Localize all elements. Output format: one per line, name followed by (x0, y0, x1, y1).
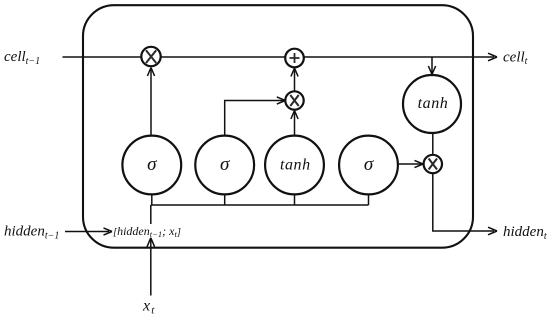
wire hidden_{t-1} input arrow (65, 231, 109, 233)
svg-text:hiddent: hiddent (503, 224, 547, 242)
wire sigma3 right into X3 (397, 163, 422, 165)
svg-text:tanh: tanh (280, 157, 311, 174)
wire candidate tanh up into X2 (294, 111, 296, 137)
node X1 multiply circle (141, 47, 160, 66)
node X3 multiply circle (424, 155, 442, 173)
wire X3 down then right to hidden_t (433, 174, 494, 232)
svg-text:tanh: tanh (418, 95, 449, 112)
wire output tanh down to X3 (432, 133, 434, 155)
wire cell state top line (63, 56, 495, 58)
wire branch down into output tanh (431, 57, 433, 74)
wire concat vector up to bus (150, 205, 152, 224)
wire stub to sigma2 (224, 194, 226, 205)
gate sigma2 circle (195, 136, 254, 195)
wire X2 up into plus (294, 68, 296, 91)
LSTM cell boundary box (83, 5, 473, 248)
wire forget-gate arrow from sigma1 up to X1 (150, 68, 152, 137)
gate sigma3 circle (339, 136, 398, 195)
gate sigma1 circle (122, 136, 181, 195)
svg-text:[hiddent−1; xt]: [hiddent−1; xt] (113, 224, 181, 239)
wire stub to tanh (294, 194, 296, 205)
output tanh circle (403, 75, 461, 133)
svg-text:σ: σ (147, 154, 157, 175)
node plus circle (285, 49, 304, 68)
wire distribution bus (151, 204, 369, 206)
wire x_t input arrow up (150, 240, 152, 296)
node cell_t output arrowhead (488, 53, 497, 61)
svg-text:σ: σ (220, 154, 230, 175)
node X2 multiply circle (285, 91, 303, 109)
svg-text:cellt: cellt (503, 49, 528, 67)
wire stub to sigma1 (151, 194, 153, 205)
gate tanh circle (265, 136, 324, 195)
svg-text:σ: σ (364, 154, 374, 175)
wire stub to sigma3 (368, 194, 370, 205)
wire input-gate path: sigma2 up and right into X2 (225, 101, 285, 137)
